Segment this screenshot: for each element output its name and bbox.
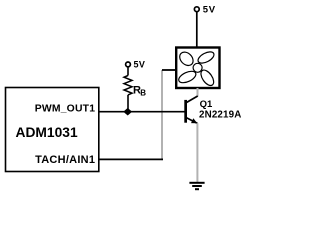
resistor RB zigzag bbox=[124, 76, 132, 95]
wire resistor RB to junction bbox=[127, 95, 129, 111]
wire fan tach output (left) bbox=[162, 69, 176, 71]
transistor Q1 emitter stroke bbox=[187, 118, 198, 124]
fan M1 body bbox=[176, 48, 219, 89]
svg-text:Q1: Q1 bbox=[200, 99, 213, 110]
fan blade upper-right bbox=[196, 50, 215, 66]
wire fan to collector (gray) bbox=[197, 88, 199, 97]
transistor Q1 emitter arrowhead bbox=[191, 118, 197, 123]
wire emitter to ground (gray) bbox=[196, 123, 198, 182]
fan blade upper-left bbox=[177, 49, 196, 68]
wire TACH/AIN1 horizontal bbox=[99, 158, 163, 160]
wire PWM_OUT1 to base of Q1 bbox=[99, 111, 185, 113]
svg-text:TACH/AIN1: TACH/AIN1 bbox=[35, 154, 95, 166]
svg-text:5V: 5V bbox=[203, 5, 216, 16]
wire 5V to resistor RB bbox=[127, 67, 129, 76]
node junction dot (diamond) at RB/PWM bbox=[123, 108, 132, 116]
power 5V (fan supply) circle bbox=[194, 7, 199, 12]
svg-text:5V: 5V bbox=[134, 60, 146, 70]
ground symbol bbox=[189, 183, 204, 189]
wire 5V to fan bbox=[196, 12, 198, 47]
IC U1 ADM1031 box bbox=[6, 88, 99, 172]
fan blade lower-right bbox=[198, 68, 216, 88]
svg-text:PWM_OUT1: PWM_OUT1 bbox=[35, 104, 96, 115]
fan blade lower-left bbox=[177, 69, 198, 85]
transistor Q1 collector stroke bbox=[187, 96, 198, 103]
transistor Q1 base bar bbox=[184, 100, 187, 123]
svg-text:B: B bbox=[140, 88, 146, 97]
power 5V (RB pull-up) circle bbox=[126, 62, 131, 67]
wire tach vertical (gray) bbox=[161, 70, 163, 160]
fan hub bbox=[193, 63, 202, 72]
svg-text:2N2219A: 2N2219A bbox=[199, 109, 241, 120]
svg-text:ADM1031: ADM1031 bbox=[16, 125, 78, 140]
